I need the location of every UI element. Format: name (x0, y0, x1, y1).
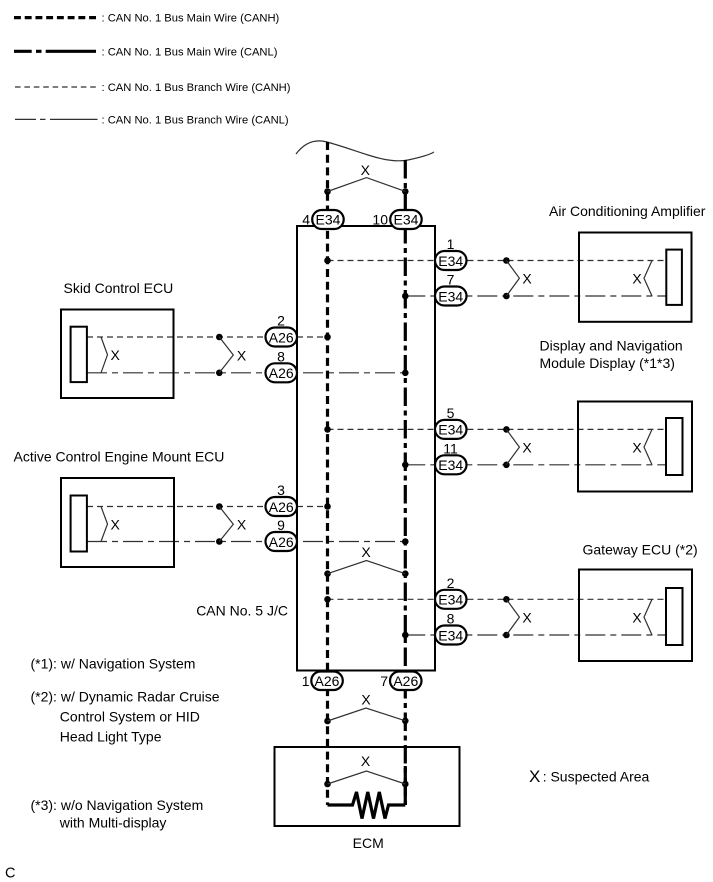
svg-text:A26: A26 (269, 365, 294, 381)
connector oval A26 pin3 (active CANH) (266, 497, 298, 516)
box: ECM (275, 747, 460, 826)
connector oval E34 pin4 (top left of J/C) (312, 210, 344, 229)
wire: Skid Control ECU CANH branch (A26 pin2 row) (87, 336, 328, 338)
svg-text:X: X (361, 162, 371, 178)
pin number 11 (443, 440, 458, 456)
suspected area mark X on active branch wires (219, 507, 247, 542)
pin number 3 (277, 482, 285, 498)
connector oval A26 pin9 (active CANL) (266, 532, 298, 551)
svg-text:1: 1 (302, 673, 310, 689)
svg-text:(*3): w/o Navigation System: (*3): w/o Navigation System (31, 797, 204, 813)
svg-text:11: 11 (443, 440, 458, 456)
wire: Active Control Engine Mount ECU CANH branch (A26 pin3 row) (87, 506, 328, 508)
svg-text:with Multi-display: with Multi-display (59, 815, 167, 831)
pin number 10 (372, 212, 388, 228)
connector pin header inside Display and Navigation Module (666, 418, 683, 475)
box: Active Control Engine Mount ECU (61, 478, 174, 567)
svg-text:2: 2 (277, 313, 285, 329)
wire: Display and Navigation Module CANH branch (E34 pin5 row) (328, 428, 667, 430)
svg-text:C: C (5, 866, 15, 882)
svg-text:E34: E34 (438, 627, 463, 643)
suspected area mark X on main bus above J/C (328, 162, 406, 191)
legend text CANL main (102, 46, 278, 58)
legend line: CAN No.1 Bus Branch Wire CANH sample (15, 86, 96, 88)
box: Skid Control ECU (61, 310, 174, 399)
pin number 1 (447, 236, 455, 252)
svg-text:Control System or HID: Control System or HID (60, 709, 200, 725)
svg-text:X: X (632, 440, 642, 456)
svg-text:7: 7 (380, 673, 388, 689)
wire: CAN No.1 bus main CANL (right vertical, thick dash-dot) (404, 160, 407, 805)
svg-text:E34: E34 (316, 212, 341, 228)
svg-text:X: X (632, 610, 642, 626)
wire: Gateway ECU CANL branch (E34 pin8 row) (405, 634, 666, 636)
svg-text:A26: A26 (393, 673, 418, 689)
break wave line at top of bus (296, 141, 434, 161)
legend: X suspected area (529, 767, 650, 786)
svg-text:X: X (529, 767, 540, 786)
svg-text:E34: E34 (438, 422, 463, 438)
svg-text:Head Light Type: Head Light Type (60, 729, 162, 745)
svg-text:CAN No. 5 J/C: CAN No. 5 J/C (196, 603, 288, 619)
wire: Gateway ECU CANH branch (E34 pin2 row) (328, 598, 667, 600)
pin number 2 (447, 575, 455, 591)
connector oval E34 pin1 (AC amplifier CANH) (435, 251, 467, 270)
wire: CAN No.1 bus main CANH (left vertical, thick dashed) (326, 142, 329, 805)
svg-text:X: X (237, 517, 247, 533)
svg-text:: CAN No. 1 Bus Main Wire (CAN: : CAN No. 1 Bus Main Wire (CANH) (102, 13, 280, 25)
svg-text:: Suspected Area: : Suspected Area (543, 768, 650, 784)
suspected area mark X on main bus below J/C (328, 692, 406, 722)
svg-text:ECM: ECM (353, 835, 384, 851)
pin number 9 (277, 517, 285, 533)
svg-text:10: 10 (372, 212, 388, 228)
suspected area mark X inside AC amplifier (632, 261, 652, 297)
connector oval E34 pin11 (display CANL) (435, 455, 467, 474)
junction dots on right CANL main wire (402, 188, 409, 787)
box: Gateway ECU (579, 570, 692, 662)
svg-text:E34: E34 (438, 288, 463, 304)
wire: Active Control Engine Mount ECU CANL branch (A26 pin9 row) (87, 541, 405, 543)
label: Air Conditioning Amplifier (549, 203, 706, 219)
pin number 8 (277, 348, 285, 364)
page letter C (5, 866, 15, 882)
connector pin header inside Air Conditioning Amplifier (666, 250, 682, 305)
svg-text:Display and Navigation: Display and Navigation (540, 337, 683, 353)
svg-text:E34: E34 (438, 457, 463, 473)
svg-text:X: X (237, 347, 247, 363)
connector pin header inside Active Control Engine Mount ECU (71, 496, 87, 552)
junction dots at suspected-area V marks (branch wires) (216, 257, 510, 638)
svg-text:A26: A26 (315, 673, 340, 689)
legend line: CAN No.1 Bus Branch Wire CANL sample (15, 118, 98, 120)
svg-text:: CAN No. 1 Bus Branch Wire (C: : CAN No. 1 Bus Branch Wire (CANL) (102, 114, 289, 126)
svg-text:Air Conditioning Amplifier: Air Conditioning Amplifier (549, 203, 706, 219)
svg-text:1: 1 (447, 236, 455, 252)
connector oval E34 pin2 (gateway CANH) (435, 590, 467, 609)
svg-text:5: 5 (447, 405, 455, 421)
connector pin header inside Gateway ECU (666, 588, 683, 645)
connector pin header inside Skid Control ECU (71, 327, 87, 382)
svg-text:(*2): w/ Dynamic Radar Cruise: (*2): w/ Dynamic Radar Cruise (31, 688, 220, 704)
svg-text:7: 7 (447, 272, 455, 288)
wire: Air Conditioning Amplifier CANH branch (E34 pin1 row) (328, 260, 667, 262)
suspected area mark X on AC amplifier branch wires (506, 261, 532, 297)
pin number 7 (380, 673, 388, 689)
svg-text:A26: A26 (269, 329, 294, 345)
svg-text:E34: E34 (438, 253, 463, 269)
pin number 2 (277, 313, 285, 329)
svg-text:4: 4 (302, 212, 310, 228)
svg-text:8: 8 (447, 611, 455, 627)
svg-text:2: 2 (447, 575, 455, 591)
legend text CANH branch (102, 82, 291, 94)
legend text CANL branch (102, 114, 289, 126)
pin number 1 (302, 673, 310, 689)
suspected area mark X inside gateway ECU (632, 599, 652, 635)
suspected area mark X on main bus inside J/C (328, 544, 406, 574)
note (*2) (31, 688, 220, 744)
svg-text:Gateway ECU (*2): Gateway ECU (*2) (583, 542, 698, 558)
svg-text:: CAN No. 1 Bus Branch Wire (C: : CAN No. 1 Bus Branch Wire (CANH) (102, 82, 291, 94)
pin number 5 (447, 405, 455, 421)
suspected area mark X on skid branch wires (219, 337, 247, 373)
svg-text:X: X (361, 692, 371, 708)
connector oval A26 pin1 (bottom left of J/C) (311, 672, 343, 691)
pin number 4 (302, 212, 310, 228)
connector oval E34 pin8 (gateway CANL) (435, 626, 467, 645)
pin number 7 (447, 272, 455, 288)
legend text CANH main (102, 13, 280, 25)
junction dots on left CANH main wire (324, 188, 331, 787)
svg-text:X: X (522, 609, 532, 625)
wire: Skid Control ECU CANL branch (A26 pin8 row) (87, 372, 405, 374)
svg-text:Module Display (*1*3): Module Display (*1*3) (540, 355, 675, 371)
suspected area mark X inside Skid Control ECU (101, 337, 121, 373)
legend line: CAN No.1 Bus Main Wire CANL sample (14, 50, 96, 53)
svg-text:X: X (111, 516, 121, 532)
suspected area mark X inside display module (632, 429, 652, 464)
connector oval A26 pin2 (skid CANH) (266, 328, 298, 347)
svg-text:E34: E34 (438, 592, 463, 608)
connector oval A26 pin8 (skid CANL) (266, 363, 298, 382)
svg-text:3: 3 (277, 482, 285, 498)
svg-text:8: 8 (277, 348, 285, 364)
svg-text:E34: E34 (394, 212, 419, 228)
label: Gateway ECU (*2) (583, 542, 698, 558)
connector oval E34 pin7 (AC amplifier CANL) (435, 287, 467, 306)
svg-text:X: X (361, 753, 371, 769)
suspected area mark X on display branch wires (506, 429, 532, 464)
svg-text:(*1): w/ Navigation System: (*1): w/ Navigation System (31, 656, 196, 672)
svg-text:X: X (522, 440, 532, 456)
connector oval A26 pin7 (bottom right of J/C) (390, 672, 422, 691)
label: Active Control Engine Mount ECU (14, 449, 225, 465)
svg-text:X: X (111, 347, 121, 363)
label: CAN No. 5 J/C (196, 603, 288, 619)
svg-text:X: X (632, 271, 642, 287)
suspected area mark X on gateway branch wires (506, 599, 532, 635)
label: Display and Navigation Module Display (*1*3) (540, 337, 683, 371)
wire: Air Conditioning Amplifier CANL branch (E34 pin7 row) (405, 295, 666, 297)
svg-text:9: 9 (277, 517, 285, 533)
svg-text:A26: A26 (269, 499, 294, 515)
svg-text:Active Control Engine Mount EC: Active Control Engine Mount ECU (14, 449, 225, 465)
legend line: CAN No.1 Bus Main Wire CANH sample (14, 16, 96, 19)
svg-text:X: X (361, 544, 371, 560)
label: ECM (353, 835, 384, 851)
wire: Display and Navigation Module CANL branch (E34 pin11 row) (405, 464, 666, 466)
connector oval E34 pin5 (display CANH) (435, 420, 467, 439)
box: CAN No.5 J/C junction connector (297, 226, 435, 671)
pin number 8 (447, 611, 455, 627)
svg-text:: CAN No. 1 Bus Main Wire (CAN: : CAN No. 1 Bus Main Wire (CANL) (102, 46, 278, 58)
connector oval E34 pin10 (top right of J/C) (390, 210, 422, 229)
box: Display and Navigation Module Display (578, 402, 692, 492)
svg-text:Skid Control ECU: Skid Control ECU (64, 280, 174, 296)
note (*1) (31, 656, 196, 672)
suspected area mark X on main bus inside ECM (328, 753, 406, 784)
svg-text:A26: A26 (269, 534, 294, 550)
svg-text:X: X (522, 271, 532, 287)
label: Skid Control ECU (64, 280, 174, 296)
resistor: ECM terminating resistor with leads (328, 792, 406, 819)
box: Air Conditioning Amplifier (579, 233, 692, 322)
suspected area mark X inside Active Control Engine Mount ECU (101, 507, 121, 542)
note (*3) (31, 797, 204, 831)
